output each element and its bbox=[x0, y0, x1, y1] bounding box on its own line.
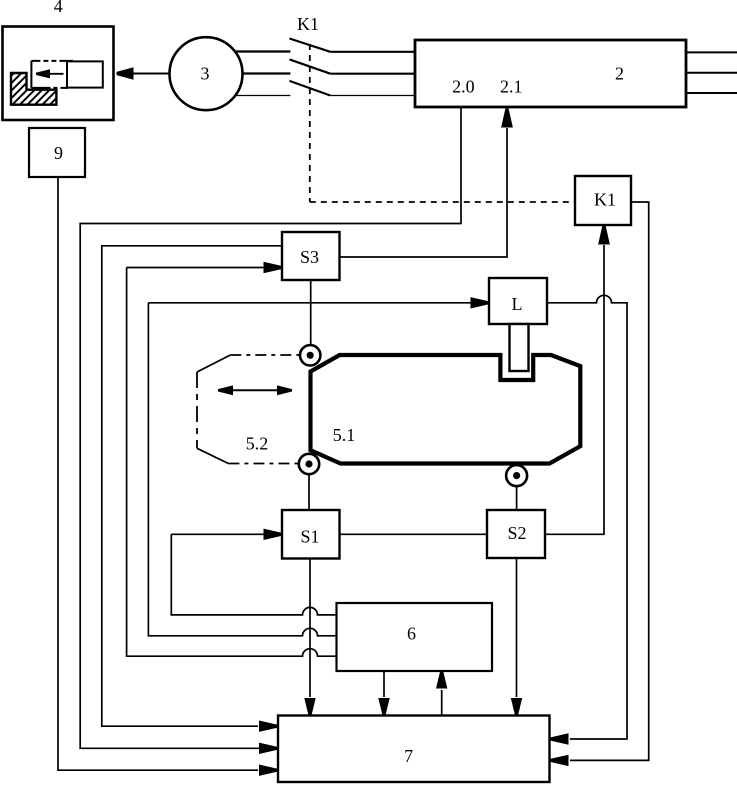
dashed actuation link vertical from contactor bbox=[309, 44, 311, 202]
svg-text:9: 9 bbox=[54, 143, 63, 163]
K1 coil box bbox=[575, 176, 631, 225]
arrow from motor 3 into box 4 bbox=[118, 73, 170, 75]
phase wire 3 motor to contactor bbox=[234, 95, 290, 97]
double headed motion arrow bbox=[230, 389, 280, 391]
roller top left bbox=[300, 345, 320, 365]
box 6 bbox=[337, 603, 493, 671]
feed arrow inside box 4 bbox=[44, 73, 64, 75]
wire S1 bottom to box 7 bbox=[309, 559, 311, 698]
contactor K1 blade 3 bbox=[290, 81, 331, 96]
lock L box bbox=[489, 278, 547, 324]
wire S2 bottom to box 7 bbox=[516, 558, 518, 697]
box 9 bbox=[29, 128, 85, 177]
wire 6 to lock L (arrow into L) with hop bbox=[148, 303, 489, 636]
roller bottom right bbox=[506, 465, 527, 486]
svg-text:6: 6 bbox=[407, 624, 416, 644]
ghost 5.2 top-left slope bbox=[197, 355, 230, 372]
box 2 (power unit) bbox=[415, 40, 686, 107]
contactor K1 blade 1 bbox=[290, 39, 331, 52]
phase wire 2 motor to contactor bbox=[243, 72, 291, 74]
wire S3 bottom to top roller bbox=[310, 280, 312, 345]
phase wire 1 contactor to box 2 bbox=[330, 51, 414, 53]
box 7 bbox=[278, 716, 550, 783]
svg-text:S3: S3 bbox=[300, 247, 319, 267]
wire S1 to S2 bbox=[340, 533, 488, 535]
svg-text:2: 2 bbox=[615, 63, 624, 83]
motor 3 bbox=[170, 37, 243, 110]
box 4 (machine tool unit) bbox=[3, 27, 114, 121]
wire S3 to input 2.1 (up arrow into box 2) bbox=[340, 128, 508, 257]
ghost 5.2 left edge bbox=[196, 372, 198, 448]
wire bottom-left roller to S1 bbox=[308, 474, 310, 510]
svg-text:7: 7 bbox=[404, 746, 413, 766]
contactor K1 blade 2 bbox=[290, 59, 331, 73]
phase wire 1 motor to contactor bbox=[234, 50, 290, 52]
svg-text:5.1: 5.1 bbox=[333, 425, 356, 445]
svg-text:2.0: 2.0 bbox=[452, 77, 475, 97]
wire S2 right up to K1 coil (arrow into K1) bbox=[545, 245, 604, 534]
ghost position 5.2 top dash-dot edge bbox=[230, 354, 300, 356]
dashed actuation link horizontal to K1 coil bbox=[310, 201, 575, 203]
ghost 5.2 bottom-left slope bbox=[197, 448, 228, 463]
wire bottom-right roller to S2 bbox=[516, 486, 518, 510]
svg-text:4: 4 bbox=[54, 0, 63, 16]
phase wire 2 contactor to box 2 bbox=[330, 73, 414, 75]
roller bottom left bbox=[299, 454, 319, 474]
tool holder rectangle in box 4 bbox=[67, 61, 103, 87]
S1 box bbox=[282, 510, 340, 559]
svg-text:S2: S2 bbox=[507, 523, 526, 543]
wire K1 coil right side down to box 7 right side bbox=[570, 202, 649, 760]
svg-text:2.1: 2.1 bbox=[500, 77, 523, 97]
lock plunger rod bbox=[510, 324, 529, 371]
svg-text:5.2: 5.2 bbox=[246, 434, 269, 454]
S3 box bbox=[282, 232, 340, 280]
ghost 5.2 bottom dash-dot edge bbox=[228, 463, 301, 465]
mains wire 3 right of box 2 bbox=[687, 92, 737, 94]
wire 6 bottom down into box 7 bbox=[383, 671, 385, 697]
cam plate 5.1 bbox=[311, 355, 581, 464]
svg-text:3: 3 bbox=[201, 64, 210, 84]
mains wire 1 right of box 2 bbox=[687, 51, 737, 53]
wire 2.0 output down, left, down into box 7 bbox=[80, 108, 461, 748]
svg-text:S1: S1 bbox=[300, 527, 319, 547]
svg-text:K1: K1 bbox=[594, 189, 616, 209]
mains wire 2 right of box 2 bbox=[687, 72, 737, 74]
wire L right to box 7 right side, hop over K1 wire bbox=[547, 295, 627, 739]
svg-text:L: L bbox=[512, 294, 523, 314]
S2 box bbox=[487, 510, 545, 558]
tool slide rectangle (part dashed) in box 4 bbox=[31, 61, 73, 88]
wire 6 to S1 feedback (arrow into S1) with hop bbox=[171, 534, 336, 615]
wire 7 up into box 6 bbox=[441, 690, 443, 716]
wire 9 down and into box 7 bbox=[58, 177, 258, 770]
wire S3 left output to box 7 bbox=[102, 246, 282, 726]
svg-text:K1: K1 bbox=[297, 14, 319, 34]
phase wire 3 contactor to box 2 bbox=[330, 95, 414, 97]
wire 6 to S3 (arrow into S3) with hop over S1 line bbox=[127, 268, 337, 657]
